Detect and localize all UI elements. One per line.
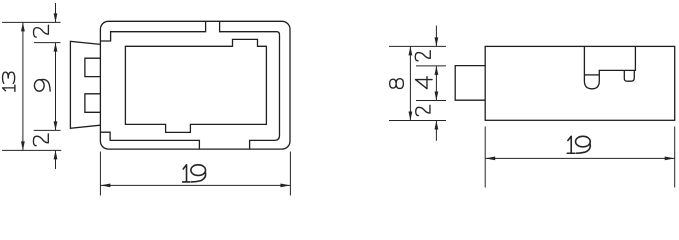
dimension line "13" with arrows: [22, 22, 24, 150]
extension lines: right view width: [484, 127, 486, 188]
extension line: left view bottom (overall height): [2, 149, 61, 151]
label 2 lower-left (rotated): [33, 134, 48, 146]
label 8 (rotated): [390, 79, 404, 89]
extension line: left view tab top: [34, 42, 61, 44]
left view: side mounting tab (trapezoid): [70, 41, 100, 128]
extension line: left view tab bottom: [34, 129, 61, 131]
extension line: right view tab bottom: [416, 100, 446, 102]
right view: side mounting tab: [455, 66, 485, 101]
left view: connector housing outer body: [100, 21, 290, 149]
extension line: right view bottom: [389, 120, 446, 122]
left view: inner shroud outline with top and bottom latch notches: [100, 21, 279, 149]
dimension line "8" with arrows: [409, 46, 411, 120]
label 9 (rotated): [34, 79, 50, 91]
right view: small round-bottom pocket: [624, 70, 634, 81]
label 19 left view: [183, 165, 190, 182]
label 19 right view: [567, 136, 574, 153]
left view: inner cavity rectangle with top key step and bottom key tab: [125, 39, 266, 132]
left view: lower slot in tab: [85, 94, 101, 113]
dimension line "2-9-2" stems and arrows: [55, 3, 57, 22]
extension line: left view top (overall height): [2, 21, 61, 23]
extension lines: left view width: [99, 152, 101, 196]
dimension line "19" left view: [100, 184, 290, 186]
dimension line "2-4-2" stems and arrows: [435, 26, 437, 47]
label 2 upper-left (rotated): [34, 25, 49, 37]
left view: upper slot in tab: [85, 58, 101, 76]
extension line: right view top: [389, 45, 446, 47]
extension line: right view tab top: [416, 65, 446, 67]
right view: pocket ledge line: [584, 74, 599, 76]
label 13 (rotated): [3, 85, 15, 91]
label 2 lower-right view (rotated): [416, 105, 430, 115]
dimension line "19" right view: [485, 157, 675, 159]
right view: housing body (side profile): [485, 46, 675, 120]
label 2 upper-right view (rotated): [415, 51, 430, 61]
right view: latch slot cavity with deep rounded pocket: [584, 46, 635, 88]
label 4 (rotated): [415, 77, 432, 89]
